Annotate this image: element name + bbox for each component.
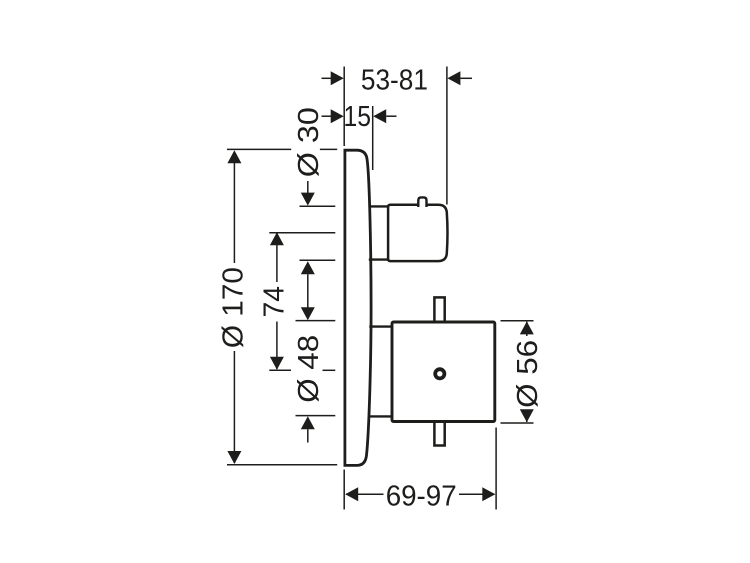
dimension Ø 30 [300, 181, 336, 260]
svg-text:Ø 48: Ø 48 [293, 335, 325, 403]
dimension Ø 56 [501, 321, 534, 423]
escutcheon wall plate (side view) [345, 150, 371, 465]
dimension 53-81 [322, 67, 473, 205]
bottom pin of square handle [434, 420, 444, 446]
upper valve stem sleeve [369, 206, 391, 259]
handle center dot [435, 369, 444, 378]
upper handle top tab [418, 197, 426, 207]
dimension 69-97 [344, 428, 496, 510]
shared arrow shaft between Ø30 bottom and Ø48 top [307, 274, 309, 307]
lower stem sleeve [369, 327, 392, 417]
dimension Ø 48 [296, 321, 336, 443]
svg-text:74: 74 [259, 286, 291, 318]
svg-text:15: 15 [344, 101, 372, 133]
dimension 15 [322, 106, 397, 170]
svg-text:53-81: 53-81 [361, 65, 428, 97]
dimension Ø 170 [227, 149, 337, 464]
svg-text:Ø 56: Ø 56 [512, 340, 544, 408]
svg-text:69-97: 69-97 [386, 480, 457, 512]
svg-text:Ø 30: Ø 30 [293, 107, 325, 177]
dimension 74 [269, 233, 335, 370]
svg-text:Ø 170: Ø 170 [217, 267, 249, 348]
upper handle [388, 205, 447, 261]
square thermostat handle [392, 322, 495, 422]
top pin of square handle [434, 297, 444, 323]
